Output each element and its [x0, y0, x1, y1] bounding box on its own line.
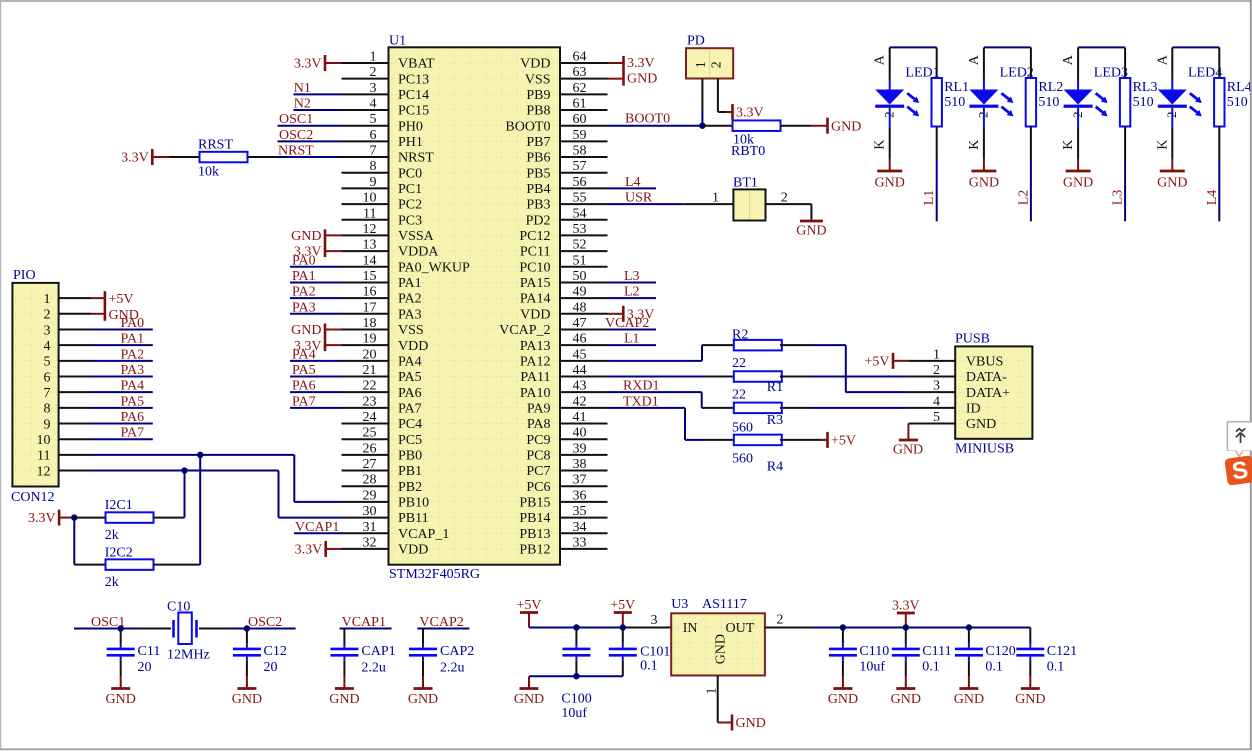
- power 3.3V at U1 pin 13: [294, 245, 342, 260]
- svg-text:NRST: NRST: [398, 151, 434, 166]
- svg-text:PC11: PC11: [520, 245, 551, 260]
- svg-text:U1: U1: [389, 34, 406, 49]
- svg-text:PC1: PC1: [398, 182, 422, 197]
- capacitor C110 10uf: [829, 628, 889, 677]
- net VCAP1 wire at U1 pin 31: [294, 520, 342, 535]
- svg-text:3.3V: 3.3V: [294, 57, 322, 72]
- svg-text:63: 63: [573, 65, 587, 80]
- svg-text:GND: GND: [232, 692, 262, 707]
- svg-text:8: 8: [44, 402, 51, 417]
- power +5V at resistor R4: [820, 432, 856, 449]
- svg-text:10: 10: [363, 191, 377, 206]
- svg-text:PC0: PC0: [398, 166, 422, 181]
- svg-text:GND: GND: [796, 224, 826, 239]
- svg-text:GND: GND: [969, 175, 999, 190]
- svg-text:RXD1: RXD1: [623, 379, 660, 394]
- resistor RL2 510: [1026, 47, 1064, 158]
- wire down to I2C2: [73, 518, 75, 565]
- net PA2 wire at U1 pin 16: [290, 285, 342, 300]
- svg-text:PA4: PA4: [121, 379, 145, 394]
- svg-text:53: 53: [573, 222, 587, 237]
- wire I2C2 up to CON12 pin 11 net: [199, 455, 201, 565]
- svg-text:VBAT: VBAT: [398, 57, 435, 72]
- svg-text:PA7: PA7: [121, 426, 145, 441]
- ground GND below input caps: [514, 676, 544, 707]
- svg-text:2: 2: [370, 65, 377, 80]
- ground GND below CAP2: [408, 676, 438, 707]
- net PA7 wire at CON12 pin 10: [91, 426, 153, 441]
- svg-text:PC15: PC15: [398, 104, 429, 119]
- svg-text:GND: GND: [954, 692, 984, 707]
- svg-text:10uf: 10uf: [859, 660, 885, 675]
- power GND at U1 pin 18: [291, 323, 341, 351]
- svg-text:K: K: [1155, 140, 1170, 150]
- svg-text:2: 2: [710, 61, 725, 68]
- svg-text:R1: R1: [767, 380, 783, 395]
- junction OSC2 at C12: [244, 625, 250, 631]
- svg-text:RRST: RRST: [198, 138, 233, 153]
- net OSC1 wire at U1 pin 5: [278, 112, 342, 127]
- svg-text:GND: GND: [627, 72, 657, 87]
- connector PUSB MINIUSB: [908, 332, 1032, 457]
- svg-text:33: 33: [573, 535, 587, 550]
- svg-text:PA6: PA6: [121, 410, 145, 425]
- svg-text:PB1: PB1: [398, 464, 422, 479]
- capacitor CAP1 2.2u: [330, 629, 395, 677]
- power GND at resistor RBT0: [811, 118, 861, 135]
- svg-text:2: 2: [882, 112, 897, 119]
- svg-text:PA4: PA4: [292, 347, 316, 362]
- svg-text:16: 16: [363, 285, 377, 300]
- svg-text:51: 51: [573, 253, 587, 268]
- power GND at U1 pin 63: [608, 72, 658, 87]
- svg-text:10k: 10k: [198, 165, 219, 180]
- net L3 wire at U1 pin 50: [608, 269, 657, 284]
- svg-text:9: 9: [370, 175, 377, 190]
- svg-text:VSS: VSS: [525, 72, 551, 87]
- junction C101 top: [620, 624, 626, 630]
- overlay orange S badge: [1224, 455, 1252, 486]
- svg-text:PC6: PC6: [526, 480, 550, 495]
- net PA7 wire at U1 pin 23: [290, 394, 342, 409]
- svg-text:DATA+: DATA+: [966, 386, 1010, 401]
- svg-text:PC13: PC13: [398, 72, 429, 87]
- resistor RBT0 10k: [702, 120, 811, 158]
- svg-text:PA0: PA0: [121, 316, 145, 331]
- svg-text:32: 32: [363, 535, 377, 550]
- net L1 wire at U1 pin 46: [608, 332, 657, 347]
- wire I2C1 up to CON12 pin 12 net: [184, 471, 186, 518]
- svg-text:GND: GND: [828, 692, 858, 707]
- net L4 wire below RL4: [1205, 158, 1220, 221]
- svg-text:C101: C101: [640, 645, 670, 660]
- svg-text:60: 60: [573, 112, 587, 127]
- ground GND below C12: [232, 676, 262, 707]
- svg-text:PB4: PB4: [526, 182, 550, 197]
- svg-text:PA4: PA4: [398, 354, 422, 369]
- svg-text:50: 50: [573, 269, 587, 284]
- svg-text:VSS: VSS: [398, 323, 424, 338]
- svg-text:PA2: PA2: [121, 347, 145, 362]
- svg-text:BT1: BT1: [733, 176, 758, 191]
- svg-text:PC3: PC3: [398, 213, 422, 228]
- svg-text:49: 49: [573, 285, 587, 300]
- svg-text:PB15: PB15: [519, 496, 550, 511]
- svg-text:44: 44: [573, 363, 587, 378]
- svg-text:20: 20: [363, 347, 377, 362]
- svg-text:2: 2: [933, 363, 940, 378]
- svg-text:USR: USR: [625, 191, 653, 206]
- svg-text:C10: C10: [167, 600, 190, 615]
- svg-text:4: 4: [933, 394, 940, 409]
- svg-text:2: 2: [781, 191, 788, 206]
- ground GND below BT1: [796, 204, 826, 239]
- svg-text:BOOT0: BOOT0: [625, 112, 670, 127]
- LED LED2: [967, 47, 1034, 158]
- svg-text:64: 64: [573, 50, 587, 65]
- svg-text:N1: N1: [294, 81, 311, 96]
- svg-text:PA12: PA12: [520, 354, 551, 369]
- wire CON12 pin 12 to U1 PB11: [91, 471, 342, 518]
- svg-text:NRST: NRST: [278, 144, 314, 159]
- net VCAP2 wire: [417, 615, 469, 630]
- svg-text:2: 2: [1164, 112, 1179, 119]
- power 3.3V at U1 pin 48: [608, 306, 655, 323]
- svg-text:21: 21: [363, 363, 377, 378]
- ground GND below LED3: [1063, 159, 1093, 191]
- svg-text:2.2u: 2.2u: [440, 661, 465, 676]
- svg-text:43: 43: [573, 379, 587, 394]
- power 3.3V at I2C pull-ups: [28, 510, 74, 527]
- net PA1 wire at U1 pin 15: [290, 269, 342, 284]
- net VCAP2 wire at U1 pin 47: [605, 316, 656, 331]
- ground GND below LED4: [1157, 159, 1187, 191]
- power +5V at CON12 pin 1: [91, 291, 134, 321]
- svg-text:L2: L2: [624, 285, 640, 300]
- svg-text:3.3V: 3.3V: [736, 105, 764, 120]
- svg-text:PC10: PC10: [519, 260, 550, 275]
- resistor I2C1 2k: [74, 498, 184, 543]
- svg-text:L2: L2: [1016, 190, 1031, 206]
- resistor I2C2 2k: [74, 546, 200, 591]
- svg-text:CON12: CON12: [11, 490, 55, 505]
- resistor RRST 10k: [170, 138, 278, 180]
- wire LED2 anode to resistor RL2: [984, 46, 1031, 48]
- svg-text:+5V: +5V: [109, 292, 134, 307]
- svg-text:L4: L4: [1205, 190, 1220, 206]
- wire U1 pin 44 through resistor R1 to PUSB DATA-: [608, 376, 734, 378]
- svg-text:OSC1: OSC1: [279, 112, 313, 127]
- svg-text:CAP1: CAP1: [361, 644, 395, 659]
- net PA2 wire at CON12 pin 5: [91, 347, 153, 362]
- svg-text:28: 28: [363, 473, 377, 488]
- svg-text:46: 46: [573, 332, 587, 347]
- capacitor C11 20: [107, 629, 161, 677]
- junction C100 bottom: [573, 673, 579, 679]
- net USR wire at U1 pin 55: [608, 191, 685, 206]
- svg-text:L1: L1: [922, 190, 937, 206]
- svg-text:DATA-: DATA-: [966, 370, 1007, 385]
- svg-text:RBT0: RBT0: [731, 144, 765, 159]
- junction BOOT0 node: [699, 123, 705, 129]
- svg-text:PA14: PA14: [520, 292, 551, 307]
- svg-text:VDDA: VDDA: [398, 245, 439, 260]
- svg-text:7: 7: [370, 144, 377, 159]
- svg-text:PA3: PA3: [121, 363, 145, 378]
- svg-text:2.2u: 2.2u: [361, 661, 386, 676]
- net PA5 wire at U1 pin 21: [290, 363, 342, 378]
- svg-text:PB6: PB6: [526, 151, 550, 166]
- svg-text:VBUS: VBUS: [966, 354, 1003, 369]
- svg-text:GND: GND: [966, 417, 996, 432]
- svg-text:7: 7: [44, 386, 51, 401]
- svg-text:31: 31: [363, 520, 377, 535]
- junction C100 top: [573, 624, 579, 630]
- svg-text:510: 510: [1038, 95, 1059, 110]
- svg-text:42: 42: [573, 394, 587, 409]
- svg-text:AS1117: AS1117: [702, 597, 747, 612]
- svg-text:26: 26: [363, 441, 377, 456]
- svg-text:PIO: PIO: [13, 268, 36, 283]
- svg-text:RL4: RL4: [1227, 80, 1252, 95]
- svg-text:PA5: PA5: [292, 363, 316, 378]
- svg-text:PH0: PH0: [398, 119, 423, 134]
- junction at CON12 pin 12 net: [181, 467, 187, 473]
- svg-text:27: 27: [363, 457, 377, 472]
- wire U1 pin 45 to resistor R2: [608, 345, 703, 361]
- svg-text:STM32F405RG: STM32F405RG: [389, 567, 480, 582]
- button BT1: [684, 176, 811, 221]
- wire LED1 anode to resistor RL1: [890, 46, 937, 48]
- power GND at CON12 pin 2: [91, 308, 139, 323]
- capacitor C121 0.1: [1016, 628, 1077, 677]
- svg-text:PC2: PC2: [398, 198, 422, 213]
- svg-text:1: 1: [694, 61, 709, 68]
- svg-text:9: 9: [44, 417, 51, 432]
- svg-text:GND: GND: [408, 692, 438, 707]
- svg-text:2: 2: [44, 308, 51, 323]
- svg-text:ID: ID: [966, 401, 981, 416]
- capacitor C100 10uf: [561, 628, 591, 722]
- svg-text:19: 19: [363, 332, 377, 347]
- svg-text:510: 510: [1133, 95, 1154, 110]
- svg-text:GND: GND: [831, 119, 861, 134]
- svg-text:PB3: PB3: [526, 198, 550, 213]
- svg-text:5: 5: [44, 355, 51, 370]
- svg-text:1: 1: [370, 50, 377, 65]
- svg-text:11: 11: [37, 449, 50, 464]
- svg-text:PA7: PA7: [292, 394, 316, 409]
- wire R3 to PUSB ID: [812, 407, 908, 409]
- svg-text:2k: 2k: [105, 575, 119, 590]
- svg-text:+5V: +5V: [831, 434, 856, 449]
- resistor R4 560: [704, 435, 827, 475]
- svg-text:PA9: PA9: [527, 401, 551, 416]
- svg-text:PB10: PB10: [398, 496, 429, 511]
- svg-text:62: 62: [573, 81, 587, 96]
- svg-text:GND: GND: [893, 442, 923, 457]
- wire C100 C101 bottoms: [529, 675, 623, 677]
- IC U1 STM32F405RG body: [389, 34, 561, 582]
- resistor RL4 510: [1214, 47, 1252, 158]
- U1 left pins 1-32 with numbers and names: [342, 50, 471, 558]
- power 3.3V at PD pin 2: [726, 104, 764, 120]
- net L4 wire at U1 pin 56: [608, 175, 657, 190]
- svg-text:A: A: [1155, 54, 1170, 65]
- power 3.3V at U1 pin 19: [294, 339, 342, 354]
- svg-text:4: 4: [370, 97, 377, 112]
- capacitor C120 0.1: [955, 628, 1016, 677]
- svg-text:C100: C100: [561, 692, 591, 707]
- net RXD1 wire at U1 pin 43: [608, 379, 702, 408]
- svg-text:PA15: PA15: [520, 276, 551, 291]
- capacitor C101 0.1: [609, 628, 671, 677]
- net PA3 wire at CON12 pin 6: [91, 363, 153, 378]
- net L3 wire below RL3: [1111, 158, 1126, 221]
- svg-text:PA8: PA8: [527, 417, 551, 432]
- ground GND at PUSB pin 5: [893, 424, 923, 458]
- svg-text:10: 10: [37, 433, 51, 448]
- svg-text:PA6: PA6: [398, 386, 422, 401]
- power 3.3V at U1 pin 64: [608, 56, 655, 86]
- svg-text:PC9: PC9: [526, 433, 550, 448]
- svg-text:GND: GND: [714, 634, 729, 664]
- junction C120 top: [966, 624, 972, 630]
- svg-text:GND: GND: [875, 175, 905, 190]
- net PA5 wire at CON12 pin 8: [91, 394, 153, 409]
- wire LED3 anode to resistor RL3: [1078, 46, 1125, 48]
- net PA6 wire at CON12 pin 9: [91, 410, 153, 425]
- svg-text:OSC2: OSC2: [279, 128, 313, 143]
- svg-text:41: 41: [573, 410, 587, 425]
- svg-text:PA5: PA5: [121, 394, 145, 409]
- junction 3.3V pull-up node: [71, 514, 77, 520]
- net PA3 wire at U1 pin 17: [290, 300, 342, 315]
- net L2 wire at U1 pin 49: [608, 285, 657, 300]
- svg-text:C12: C12: [264, 644, 287, 659]
- svg-text:PA10: PA10: [520, 386, 551, 401]
- svg-text:PB12: PB12: [519, 543, 550, 558]
- svg-text:38: 38: [573, 457, 587, 472]
- svg-text:PA1: PA1: [398, 276, 422, 291]
- svg-text:10uf: 10uf: [561, 706, 587, 721]
- svg-text:20: 20: [138, 660, 152, 675]
- svg-text:61: 61: [573, 97, 587, 112]
- svg-text:20: 20: [264, 660, 278, 675]
- net NRST wire to U1 pin 7: [278, 144, 342, 159]
- power 3.3V at U1 pin 32: [295, 541, 342, 558]
- svg-text:L3: L3: [1111, 190, 1126, 206]
- connector PIO CON12: [11, 268, 91, 505]
- net OSC1 wire: [74, 615, 137, 630]
- svg-text:RL2: RL2: [1038, 80, 1063, 95]
- svg-text:C120: C120: [985, 644, 1015, 659]
- svg-text:560: 560: [732, 421, 753, 436]
- net PA4 wire at CON12 pin 7: [91, 379, 153, 394]
- svg-text:12: 12: [363, 222, 377, 237]
- svg-text:PB5: PB5: [526, 166, 550, 181]
- svg-text:59: 59: [573, 128, 587, 143]
- net OSC2 wire: [232, 615, 296, 630]
- svg-text:C110: C110: [859, 644, 889, 659]
- svg-text:VCAP_2: VCAP_2: [499, 323, 550, 338]
- net PA1 wire at CON12 pin 4: [91, 332, 153, 347]
- svg-text:30: 30: [363, 504, 377, 519]
- svg-text:29: 29: [363, 488, 377, 503]
- svg-text:57: 57: [573, 159, 587, 174]
- svg-text:560: 560: [732, 452, 753, 467]
- svg-text:PC14: PC14: [398, 88, 429, 103]
- svg-text:VCAP1: VCAP1: [342, 615, 386, 630]
- svg-text:VDD: VDD: [520, 57, 550, 72]
- svg-text:+5V: +5V: [516, 598, 541, 613]
- capacitor C111 0.1: [892, 628, 952, 677]
- svg-text:0.1: 0.1: [1047, 660, 1065, 675]
- svg-text:PB2: PB2: [398, 480, 422, 495]
- svg-text:47: 47: [573, 316, 587, 331]
- svg-text:C11: C11: [138, 644, 161, 659]
- svg-text:GND: GND: [1157, 175, 1187, 190]
- svg-text:PB14: PB14: [519, 511, 550, 526]
- svg-text:C121: C121: [1047, 644, 1077, 659]
- capacitor C12 20: [233, 629, 287, 677]
- svg-text:GND: GND: [514, 692, 544, 707]
- svg-text:PA1: PA1: [292, 269, 316, 284]
- ground GND below C121: [1015, 676, 1045, 707]
- svg-text:R3: R3: [767, 413, 783, 428]
- svg-text:GND: GND: [736, 716, 766, 731]
- resistor RL3 510: [1120, 47, 1158, 158]
- svg-text:VCAP1: VCAP1: [295, 520, 339, 535]
- capacitor CAP2 2.2u: [409, 629, 474, 677]
- svg-text:VDD: VDD: [398, 543, 428, 558]
- svg-text:R2: R2: [732, 328, 748, 343]
- svg-text:PB9: PB9: [526, 88, 550, 103]
- svg-text:2k: 2k: [105, 528, 119, 543]
- svg-text:24: 24: [363, 410, 377, 425]
- svg-text:2: 2: [976, 112, 991, 119]
- svg-text:17: 17: [363, 300, 377, 315]
- svg-text:PB13: PB13: [519, 527, 550, 542]
- svg-text:52: 52: [573, 238, 587, 253]
- svg-text:2: 2: [1070, 112, 1085, 119]
- svg-text:37: 37: [573, 473, 587, 488]
- svg-text:PC8: PC8: [526, 448, 550, 463]
- power +5V at C100: [516, 598, 541, 628]
- svg-text:+5V: +5V: [610, 598, 635, 613]
- svg-text:PA0: PA0: [292, 253, 316, 268]
- svg-text:PB8: PB8: [526, 104, 550, 119]
- regulator U3 AS1117: [629, 597, 813, 723]
- svg-text:PB7: PB7: [526, 135, 550, 150]
- net L1 wire below RL1: [922, 158, 937, 221]
- svg-text:1: 1: [933, 347, 940, 362]
- svg-text:0.1: 0.1: [922, 660, 940, 675]
- svg-text:3: 3: [651, 613, 658, 628]
- net L2 wire below RL2: [1016, 158, 1031, 221]
- svg-text:PA3: PA3: [398, 307, 422, 322]
- svg-text:OUT: OUT: [726, 621, 755, 636]
- svg-text:14: 14: [363, 253, 377, 268]
- power 3.3V above rail: [892, 598, 920, 627]
- svg-text:58: 58: [573, 144, 587, 159]
- svg-text:L3: L3: [624, 269, 640, 284]
- ground GND below C110: [828, 676, 858, 707]
- power 3.3V at resistor RRST: [121, 149, 169, 166]
- svg-text:13: 13: [363, 238, 377, 253]
- junction at CON12 pin 11 net: [197, 452, 203, 458]
- svg-text:40: 40: [573, 426, 587, 441]
